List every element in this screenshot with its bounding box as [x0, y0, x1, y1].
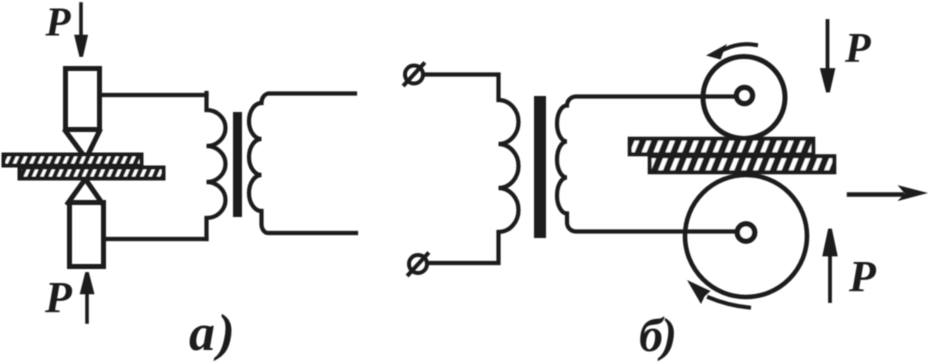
supply terminal (top): [405, 64, 424, 85]
transformer core (b): [534, 96, 546, 238]
bottom electrode: [68, 182, 104, 267]
workpiece sheet (a, lower): [20, 168, 164, 179]
rotation arrow (bottom roller): [687, 280, 749, 308]
secondary winding L1 (figure a, left): [207, 93, 226, 239]
bottom roller electrode: [685, 175, 807, 297]
force arrow P down (b): [822, 21, 833, 92]
force arrow P up (b, bottom): [825, 229, 836, 301]
feed direction arrow: [849, 186, 926, 200]
wire: winding to bottom electrode: [105, 237, 207, 241]
workpiece sheet (b, upper): [630, 139, 814, 155]
rotation arrow (top roller): [706, 44, 756, 60]
primary winding L2 (figure a, right) with supply leads: [249, 94, 356, 234]
top roller hub: [737, 88, 753, 104]
primary winding (figure b, left) with terminal leads: [424, 75, 519, 264]
workpiece sheet (a, upper): [4, 155, 142, 166]
svg-text:б): б): [639, 309, 675, 362]
force arrow P down (top): [76, 4, 85, 57]
transformer core (a): [233, 112, 242, 217]
top electrode: [66, 69, 100, 153]
top roller electrode: [703, 57, 785, 139]
svg-text:P: P: [44, 273, 73, 322]
bottom roller hub: [737, 224, 754, 241]
svg-text:а): а): [189, 305, 237, 362]
svg-text:P: P: [45, 0, 72, 45]
supply terminal (bottom): [409, 254, 428, 275]
secondary winding (figure b, right): [557, 97, 742, 232]
workpiece sheet (b, lower): [650, 156, 835, 172]
svg-text:P: P: [844, 26, 871, 72]
wire: top electrode to winding: [102, 93, 207, 97]
svg-text:P: P: [848, 252, 877, 301]
force arrow P up (bottom): [82, 273, 92, 323]
